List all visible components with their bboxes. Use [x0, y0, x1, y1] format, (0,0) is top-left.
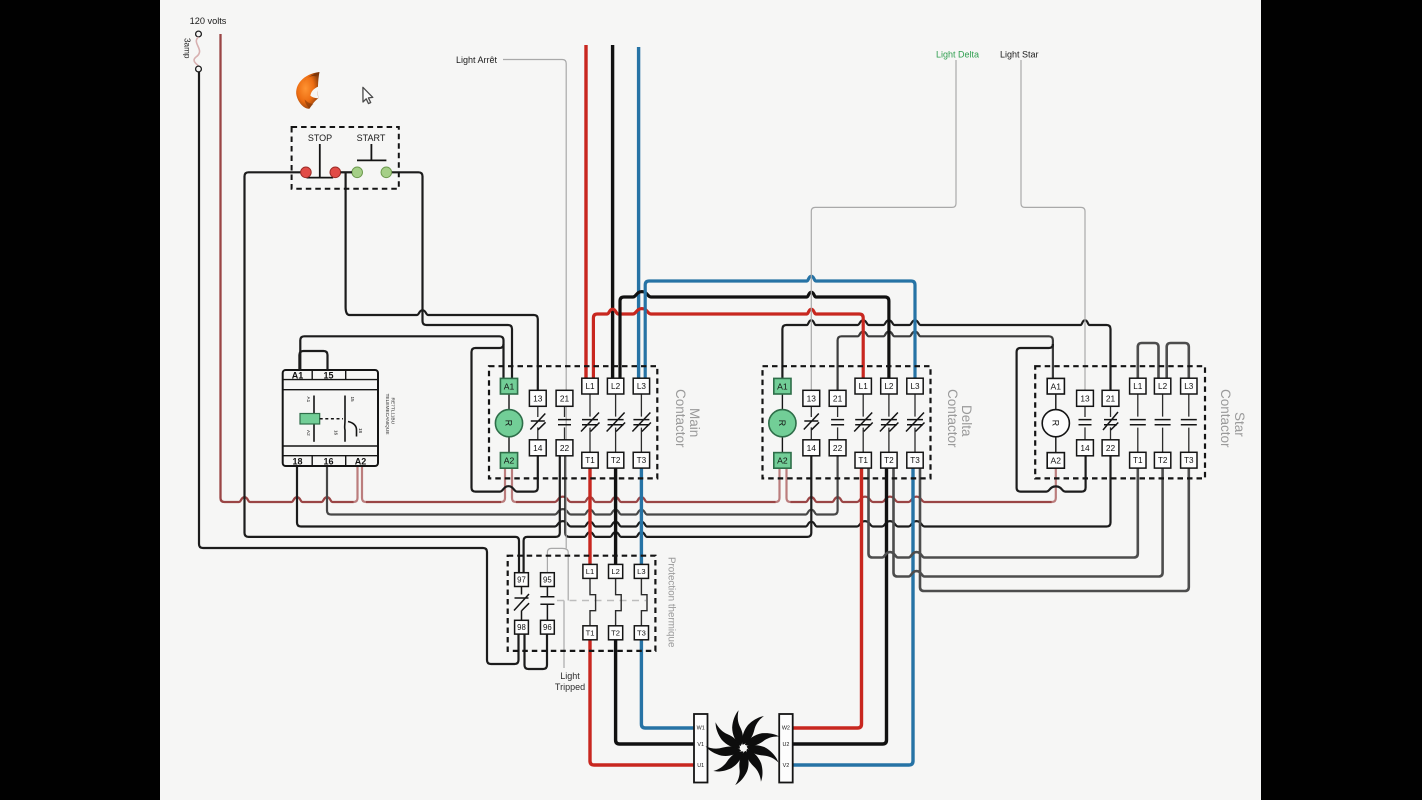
svg-text:A1: A1 [306, 397, 311, 403]
svg-text:RE7TL11BU: RE7TL11BU [389, 398, 395, 425]
contactor main pole L1-T1 [589, 394, 591, 452]
stop button NC symbol [307, 144, 334, 178]
timer coil [300, 414, 320, 425]
svg-text:13: 13 [807, 393, 817, 403]
wire: overload T3 to motor W1 (blue) [641, 640, 694, 728]
svg-text:Light: Light [560, 671, 580, 681]
svg-text:95: 95 [543, 575, 552, 584]
svg-text:14: 14 [1080, 443, 1090, 453]
contactor star coil wire A1-R-A2 [1055, 394, 1057, 453]
contactor main aux contact 21-22 [564, 406, 566, 440]
wire: red control bus fuse-side to timer A2 [221, 34, 354, 502]
overload terminal 97 [515, 573, 529, 587]
timer coil line [313, 396, 315, 442]
svg-text:L1: L1 [1133, 382, 1143, 391]
start contact right [381, 167, 392, 178]
contactor delta aux contact 13-14 [810, 406, 812, 440]
svg-text:L2: L2 [884, 382, 894, 391]
overload terminal 95 [541, 573, 555, 587]
motor fan [706, 710, 780, 785]
wire: black tap main L2 to delta L2 [620, 292, 889, 379]
svg-text:22: 22 [560, 443, 570, 453]
svg-text:3amp: 3amp [183, 38, 192, 59]
svg-text:T3: T3 [910, 456, 920, 465]
contactor star aux contact 13-14 [1084, 406, 1086, 440]
wire: neutral from fuse to overload 98 (row y548) [199, 72, 519, 665]
wire: delta A2 drop to red bus [776, 468, 791, 502]
contactor star terminal A1 [1047, 378, 1064, 394]
contactor star dashed enclosure [1035, 366, 1205, 478]
svg-text:T2: T2 [611, 456, 621, 465]
contactor delta terminal A1 [774, 378, 791, 394]
wire: delta T2 to star T2 (gray) [894, 468, 1163, 577]
svg-text:A1: A1 [777, 381, 788, 391]
svg-text:21: 21 [833, 393, 843, 403]
svg-text:A2: A2 [1051, 455, 1062, 465]
wire: L2 supply (black) [611, 45, 614, 378]
overload contact 97-98 symbol [514, 587, 529, 621]
svg-text:L1: L1 [585, 382, 595, 391]
svg-text:R: R [777, 420, 787, 426]
svg-text:16: 16 [323, 457, 333, 467]
svg-text:U1: U1 [697, 763, 704, 769]
contactor star pole L2-T2 [1162, 394, 1164, 452]
wire: Light Tripped lead [563, 601, 565, 669]
svg-text:A2: A2 [355, 457, 367, 467]
wire: delta contactor 21 to star coil A1 [838, 332, 1053, 391]
wire: timer A1 to 15 hump [299, 351, 327, 370]
svg-text:13: 13 [533, 393, 543, 403]
svg-text:T2: T2 [1158, 456, 1168, 465]
svg-text:21: 21 [1106, 393, 1116, 403]
svg-text:W2: W2 [782, 726, 790, 732]
wire: overload 97 to main contactor 22 [524, 456, 560, 573]
wire: delta T1 to motor W2 (red) [793, 468, 862, 728]
wire: star coil branch to star seal contact 14 [1017, 344, 1086, 492]
overload heater L3-T3 [641, 579, 647, 626]
wire: START button to main coil A1 [392, 172, 512, 378]
wire: blue tap main L3 to delta L3 [645, 276, 915, 378]
contactor main coil R [495, 410, 522, 437]
stop contact right [330, 167, 341, 178]
overload heater L1-T1 [590, 579, 596, 626]
contactor star coil R [1042, 410, 1069, 437]
svg-text:T1: T1 [1133, 456, 1143, 465]
contactor delta dashed enclosure [763, 366, 931, 478]
contactor main pole L3-T3 [640, 394, 642, 452]
wire: overload 98 to 96 link [525, 634, 548, 669]
svg-text:18: 18 [358, 428, 363, 434]
svg-text:L3: L3 [637, 567, 645, 576]
mouse cursor [363, 87, 373, 103]
svg-text:18: 18 [292, 457, 302, 467]
timer relay body [283, 370, 378, 466]
wire: delta T3 to star T3 (gray) [920, 468, 1189, 591]
wire: Light Star lead [1021, 60, 1085, 391]
overload heater L2-T2 [616, 579, 622, 626]
wire: L1 supply (red) [584, 45, 587, 378]
svg-text:U2: U2 [782, 742, 789, 748]
svg-text:Light Arrêt: Light Arrêt [456, 55, 498, 65]
wire: main T1 to overload L1 (red) [588, 468, 591, 565]
contactor star terminal A2 [1047, 453, 1064, 469]
wire: overload 95 lead to light arret / trip line [547, 548, 568, 600]
svg-text:15: 15 [323, 371, 333, 381]
svg-text:A1: A1 [504, 381, 515, 391]
contactor delta pole L1-T1 [862, 394, 864, 452]
contactor main pole L2-T2 [615, 394, 617, 452]
wire: timer A1 to main coil A1 (row y336) [300, 336, 503, 378]
timer bottom row lines [283, 446, 378, 466]
fuse F1 top terminal [196, 31, 202, 37]
wire: Light Arret lead [503, 60, 566, 549]
svg-text:V2: V2 [783, 763, 790, 769]
svg-text:96: 96 [543, 623, 552, 632]
contactor delta pole L3-T3 [914, 394, 916, 452]
svg-text:Tripped: Tripped [555, 682, 585, 692]
wire: red tap main L1 to delta L1 [593, 309, 863, 379]
svg-text:14: 14 [807, 443, 817, 453]
svg-text:A2: A2 [504, 455, 515, 465]
fuse F1 element [194, 37, 200, 66]
wire: red bus main A2 to delta A2 [516, 497, 776, 502]
svg-text:T1: T1 [858, 456, 868, 465]
start button NO symbol [357, 144, 386, 160]
svg-text:T2: T2 [611, 629, 620, 638]
wire: stop-start link [341, 171, 352, 173]
svg-text:98: 98 [517, 623, 526, 632]
svg-text:A2: A2 [306, 430, 311, 436]
wire: red bus timer A2 to contactor-main A2 [366, 501, 501, 503]
contactor star pole L3-T3 [1188, 394, 1190, 452]
contactor main dashed enclosure [489, 366, 657, 478]
svg-text:13: 13 [1080, 393, 1090, 403]
fuse F1 bottom terminal [196, 66, 202, 72]
wire: overload T2 to motor V1 (black) [616, 640, 694, 744]
contactor main terminal A2 [500, 453, 517, 469]
svg-text:120 volts: 120 volts [190, 16, 227, 26]
svg-text:Contactor: Contactor [1218, 389, 1233, 448]
wire: delta T3 to motor V2 (blue) [793, 468, 913, 765]
overload contact 95-96 symbol [540, 587, 554, 621]
contactor delta coil wire A1-R-A2 [781, 394, 783, 453]
svg-text:L3: L3 [910, 382, 920, 391]
svg-text:Contactor: Contactor [673, 389, 688, 448]
wire: red bus delta A2 to star A2 [791, 497, 1052, 502]
svg-text:22: 22 [833, 443, 843, 453]
pushbutton station dashed box [292, 127, 399, 189]
contactor delta aux contact 21-22 [837, 406, 839, 440]
svg-text:L2: L2 [611, 382, 621, 391]
svg-text:Protection thermique: Protection thermique [666, 557, 677, 648]
contactor star aux contact 21-22 [1110, 406, 1112, 440]
svg-text:T2: T2 [884, 456, 894, 465]
svg-text:15: 15 [350, 397, 355, 403]
contactor main aux contact 13-14 [537, 406, 539, 440]
svg-text:T1: T1 [586, 629, 595, 638]
wire: star A2 drop to red bus [1052, 468, 1056, 502]
svg-text:V1: V1 [697, 742, 704, 748]
svg-text:97: 97 [517, 575, 526, 584]
svg-text:START: START [357, 133, 386, 143]
wire: timer 16 to delta contactor 22 (gray row) [327, 456, 838, 515]
timer contact common 15 [344, 396, 346, 442]
svg-text:W1: W1 [697, 726, 705, 732]
svg-text:L2: L2 [1158, 382, 1168, 391]
svg-text:T3: T3 [637, 629, 646, 638]
wire: main contactor 22 to delta contactor 14 [565, 456, 811, 537]
svg-text:22: 22 [1106, 443, 1116, 453]
svg-text:T3: T3 [637, 456, 647, 465]
overload trip linkage dashed line [557, 600, 646, 602]
start contact left [352, 167, 363, 178]
wire: L3 supply (blue) [637, 47, 640, 378]
svg-text:Contactor: Contactor [945, 389, 960, 448]
wire: star point link L1-L2 [1138, 343, 1159, 378]
wire: Light Delta lead [811, 60, 956, 390]
wire: timer 18 to star contactor 22 [297, 456, 1111, 527]
svg-text:14: 14 [533, 443, 543, 453]
svg-text:A1: A1 [292, 371, 304, 381]
svg-text:Light Star: Light Star [1000, 50, 1039, 60]
svg-text:16: 16 [334, 430, 339, 436]
contactor delta pole L2-T2 [888, 394, 890, 452]
svg-text:L1: L1 [586, 567, 594, 576]
svg-text:21: 21 [560, 393, 570, 403]
svg-text:Delta: Delta [959, 405, 974, 437]
wire: main A2 drop to red bus [501, 468, 516, 502]
svg-text:Star: Star [1232, 412, 1247, 437]
svg-text:T1: T1 [585, 456, 595, 465]
wire: STOP button to overload 97 [245, 172, 520, 572]
stop contact left [301, 167, 312, 178]
timer top row lines [283, 370, 378, 390]
svg-text:T3: T3 [1184, 456, 1194, 465]
contactor main coil wire A1-R-A2 [508, 394, 510, 453]
svg-text:Light Delta: Light Delta [936, 50, 979, 60]
svg-text:L1: L1 [859, 382, 869, 391]
svg-text:A2: A2 [777, 455, 788, 465]
svg-text:TELEMECANIQUE: TELEMECANIQUE [384, 394, 390, 435]
timer contact 18 hook [348, 422, 357, 437]
overload terminal 96 [541, 620, 555, 634]
svg-text:L3: L3 [1184, 382, 1194, 391]
wire: overload T1 to motor U1 (red) [590, 640, 694, 765]
wire: main T3 to overload L3 (blue) [640, 468, 643, 565]
wire: main coil branch to seal contact 14 [472, 344, 538, 492]
contactor delta coil R [769, 410, 796, 437]
svg-text:Main: Main [687, 408, 702, 437]
svg-text:R: R [504, 420, 514, 426]
svg-text:R: R [1050, 420, 1060, 426]
motor terminal block right [779, 714, 793, 783]
svg-text:L3: L3 [637, 382, 647, 391]
wire: delta coil A1 to star contactor 21 [782, 320, 1110, 390]
contactor delta terminal A2 [774, 453, 791, 469]
contactor star pole L1-T1 [1137, 394, 1139, 452]
timer coil-contact dashed link [320, 418, 343, 420]
contactor main terminal A1 [500, 378, 517, 394]
svg-text:A1: A1 [1051, 381, 1062, 391]
svg-text:STOP: STOP [308, 133, 332, 143]
wire: stop/start junction to main 13 (seal row) [346, 172, 538, 390]
wire: delta T2 to motor U2 (black) [793, 468, 887, 744]
wire: main T2 to overload L2 (black) [614, 468, 617, 565]
overload relay dashed enclosure [508, 556, 656, 651]
motor terminal block left [694, 714, 708, 783]
overload terminal 98 [515, 620, 529, 634]
wire: timer A2 drop to red bus [354, 466, 367, 502]
wire: star point link L2-L3 [1167, 343, 1189, 378]
svg-text:L2: L2 [611, 567, 619, 576]
wire: delta T1 to star T1 (gray) [869, 468, 1138, 558]
